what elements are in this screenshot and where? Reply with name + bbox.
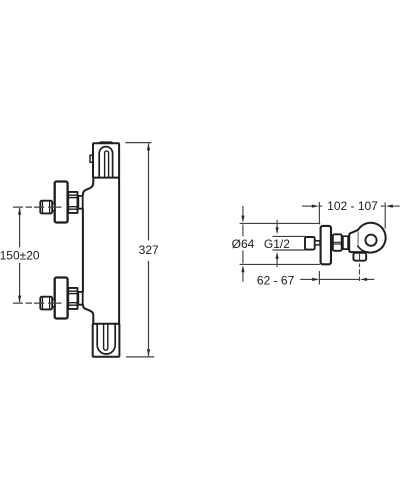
svg-text:Ø64: Ø64	[232, 237, 255, 251]
svg-text:327: 327	[139, 243, 159, 257]
svg-text:62 - 67: 62 - 67	[257, 273, 295, 287]
svg-text:G1/2: G1/2	[264, 237, 290, 251]
svg-text:102 - 107: 102 - 107	[327, 199, 378, 213]
svg-text:150±20: 150±20	[0, 249, 40, 263]
